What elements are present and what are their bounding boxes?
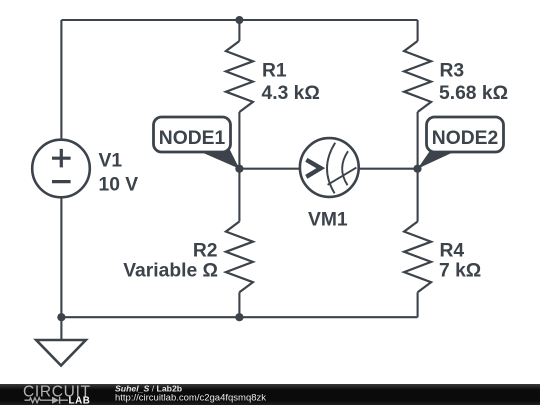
wire left rail upper (V1 top lead) bbox=[60, 20, 62, 140]
resistor R1 bbox=[226, 41, 253, 112]
node NODE1 flag tail bbox=[197, 150, 240, 169]
wire R2 top lead bbox=[238, 169, 240, 222]
wire R4 top lead bbox=[417, 169, 419, 222]
wire R3 top lead bbox=[417, 20, 419, 41]
node NODE2 flag tail bbox=[418, 150, 459, 169]
wire R1 top lead bbox=[238, 20, 240, 41]
junction dot top bbox=[235, 16, 243, 24]
junction dot bottom-center bbox=[235, 313, 243, 321]
VM1 needle bbox=[328, 168, 357, 185]
voltage source V1 bbox=[32, 140, 90, 198]
wire VM1 to node2 bbox=[360, 168, 418, 170]
wire bottom rail bbox=[61, 316, 417, 318]
V1 minus sign bbox=[52, 180, 71, 183]
svg-text:LAB: LAB bbox=[69, 395, 91, 405]
logo resistor zigzag bbox=[25, 398, 53, 403]
resistor R4 bbox=[404, 222, 431, 293]
voltmeter VM1 bbox=[300, 138, 359, 197]
VM1 meter arc left bbox=[327, 143, 335, 194]
logo diode triangle bbox=[52, 397, 59, 404]
junction dot bottom-left bbox=[57, 313, 65, 321]
resistor R3 bbox=[404, 41, 431, 112]
wire R4 bottom lead bbox=[417, 292, 419, 317]
wire top rail bbox=[61, 19, 417, 21]
footer bar bbox=[0, 384, 540, 405]
VM1 meter arc right bbox=[342, 151, 348, 185]
wire R2 bottom lead bbox=[238, 292, 240, 317]
wire R3 bottom lead bbox=[417, 112, 419, 169]
V1 plus sign bbox=[52, 149, 71, 168]
VM1 greater-than mark bbox=[306, 160, 321, 177]
wire R1 bottom lead bbox=[238, 112, 240, 169]
node B (NODE2 junction) bbox=[413, 165, 421, 173]
resistor R2 bbox=[226, 222, 253, 293]
logo diode bar and lead bbox=[60, 397, 68, 404]
wire node1 to VM1 bbox=[239, 168, 299, 170]
ground bbox=[36, 340, 86, 366]
node NODE1 flag box bbox=[154, 117, 231, 152]
node NODE2 flag box bbox=[427, 117, 504, 152]
svg-text:http://circuitlab.com/c2ga4fqs: http://circuitlab.com/c2ga4fqsmq8zk bbox=[115, 393, 266, 404]
wire left rail lower (V1 bottom lead) bbox=[60, 197, 62, 317]
wire ground stem bbox=[60, 317, 62, 340]
node A (NODE1 junction) bbox=[235, 165, 243, 173]
